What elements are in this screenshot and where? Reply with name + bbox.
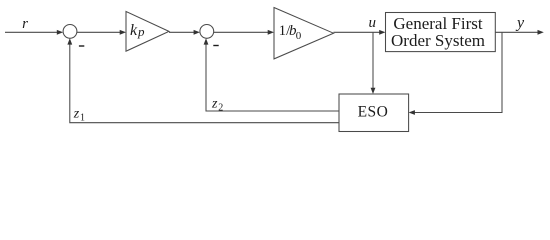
wire z2 from ESO to S2 <box>204 38 339 111</box>
svg-text:k: k <box>130 22 138 39</box>
plant box General First Order System <box>386 13 496 52</box>
node z1 label <box>73 106 85 123</box>
wire S2 to gain 1/b0 <box>214 30 274 35</box>
svg-text:p: p <box>137 24 145 39</box>
summing junction S1 <box>63 25 77 39</box>
svg-text:r: r <box>22 16 28 32</box>
gain block kp <box>126 12 169 52</box>
svg-text:z: z <box>73 106 80 121</box>
wire S1 to gain kp <box>77 30 126 35</box>
svg-text:2: 2 <box>218 102 223 113</box>
minus sign at S1 <box>79 45 84 47</box>
summing junction S2 <box>200 25 214 39</box>
wire z1 from ESO to S1 <box>67 38 339 122</box>
wire r to summing junction S1 <box>5 30 63 35</box>
minus sign at S2 <box>213 45 218 47</box>
wire y feedback to ESO <box>409 32 502 115</box>
svg-text:z: z <box>211 97 218 112</box>
ESO box <box>339 94 409 132</box>
wire plant to output y <box>495 30 544 35</box>
wire 1/b0 to plant (node u) <box>334 30 386 35</box>
svg-text:0: 0 <box>296 30 302 42</box>
svg-text:1: 1 <box>80 112 85 123</box>
wire kp to summing junction S2 <box>169 30 200 35</box>
svg-text:Order System: Order System <box>391 31 485 50</box>
wire u branch down to ESO <box>371 32 376 94</box>
node z2 label <box>211 97 223 114</box>
svg-text:y: y <box>515 15 525 32</box>
gain block 1/b0 <box>274 8 334 59</box>
svg-text:u: u <box>369 15 377 31</box>
svg-text:ESO: ESO <box>358 104 389 121</box>
